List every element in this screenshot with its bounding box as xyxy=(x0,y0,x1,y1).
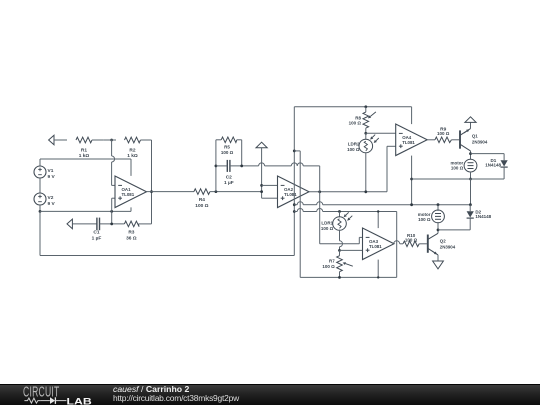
wire flag stub xyxy=(261,148,263,198)
svg-text:V1: V1 xyxy=(48,168,54,174)
wire xyxy=(72,223,97,225)
wire xyxy=(365,133,367,139)
node junction xyxy=(215,165,218,168)
node junction R8 top xyxy=(364,105,367,108)
svg-text:Q1: Q1 xyxy=(472,134,478,139)
wire xyxy=(339,230,341,241)
node junction LDR1 top xyxy=(338,210,341,213)
node junction xyxy=(293,210,296,213)
node flag OA2 plus xyxy=(256,142,267,148)
svg-text:1N4148: 1N4148 xyxy=(485,163,501,168)
wire OA3 V- pin xyxy=(377,260,379,278)
svg-text:9 V: 9 V xyxy=(48,174,56,180)
wire xyxy=(216,165,227,167)
wire feedback right vertical xyxy=(151,140,153,224)
op-amp OA3 xyxy=(363,228,395,259)
resistor R4 xyxy=(194,189,210,195)
voltage source V1 9V xyxy=(34,166,46,178)
wire OA4 V+ pin xyxy=(411,107,413,124)
wire row to OA3 minus xyxy=(320,243,360,245)
wire OA3 out xyxy=(394,241,400,244)
photoresistor LDR2 xyxy=(359,139,373,153)
wire row Vminus B xyxy=(294,211,297,213)
light arrows LDR2 xyxy=(372,135,375,138)
wire OA4 plus vertical xyxy=(386,146,388,192)
wire OA3 V+ pin xyxy=(377,212,379,229)
svg-text:1N4148: 1N4148 xyxy=(475,214,491,219)
wire feedback vertical xyxy=(319,166,321,192)
wire OA2out to OA3 row xyxy=(319,243,321,245)
light arrows LDR1 xyxy=(346,212,349,215)
svg-text:R4: R4 xyxy=(199,197,205,203)
node junction xyxy=(293,203,296,206)
svg-text:TL081: TL081 xyxy=(284,192,297,197)
diode D2 1N4148 xyxy=(469,205,471,212)
wire xyxy=(54,139,67,141)
svg-text:1 µF: 1 µF xyxy=(92,235,102,241)
node junction R7 bottom xyxy=(338,276,341,279)
op-amp OA2 xyxy=(278,176,310,208)
node junction xyxy=(469,178,472,181)
svg-text:1 µF: 1 µF xyxy=(224,180,234,186)
wire V+ pin OA1 xyxy=(130,159,132,176)
svg-text:R2: R2 xyxy=(129,147,135,153)
diode D1 1N4148 xyxy=(503,154,505,161)
svg-text:100 Ω: 100 Ω xyxy=(347,147,360,152)
resistor R9 xyxy=(435,137,451,143)
svg-text:100 Ω: 100 Ω xyxy=(418,217,431,222)
motor motor1 100ohm xyxy=(464,159,477,172)
capacitor C1 1uF xyxy=(96,218,98,231)
photoresistor LDR1 xyxy=(333,217,347,231)
wire xyxy=(437,205,439,211)
node junction xyxy=(293,150,296,153)
svg-text:100 Ω: 100 Ω xyxy=(221,150,234,155)
svg-text:100 Ω: 100 Ω xyxy=(322,264,335,269)
wire xyxy=(365,153,367,192)
svg-text:TL081: TL081 xyxy=(402,140,415,145)
op-amp OA1 xyxy=(115,176,147,208)
wire inverting input OA1 xyxy=(111,140,113,156)
wire non-inverting OA3 xyxy=(340,249,363,251)
wire V+ rail row xyxy=(40,158,131,160)
svg-text:100 Ω: 100 Ω xyxy=(451,166,464,171)
wire second vertical xyxy=(299,151,301,278)
transistor Q2 2N3904 xyxy=(427,235,429,253)
wire OA4 V- pin / vertical xyxy=(411,156,413,205)
node junction xyxy=(240,165,243,168)
svg-text:TL081: TL081 xyxy=(122,192,135,197)
wire motor2 bottom xyxy=(437,222,439,233)
resistor R1 xyxy=(76,137,92,143)
svg-text:C1: C1 xyxy=(93,230,99,236)
wire box bottom xyxy=(300,276,397,278)
wire row Vminus A xyxy=(294,204,297,206)
wire inverting input OA2 xyxy=(262,184,278,186)
wire corner from feedback vertical xyxy=(319,192,321,244)
wire xyxy=(451,139,459,141)
svg-text:36 Ω: 36 Ω xyxy=(126,235,137,241)
svg-text:1 kΩ: 1 kΩ xyxy=(79,153,90,159)
node junction xyxy=(260,190,263,193)
node junction C1/R3 xyxy=(110,223,113,226)
wire D1 bottom row xyxy=(412,178,505,180)
potentiometer R7 xyxy=(339,250,341,255)
wire to OA4 minus xyxy=(366,132,396,134)
svg-text:LDR1: LDR1 xyxy=(321,220,333,225)
ground xyxy=(433,261,444,269)
wire xyxy=(230,165,259,167)
node junction emitter/D1 xyxy=(469,152,472,155)
node junction xyxy=(110,210,113,213)
svg-text:1 kΩ: 1 kΩ xyxy=(127,153,138,159)
node junction xyxy=(410,178,413,181)
node junction xyxy=(410,203,413,206)
wire fb left vertical xyxy=(215,140,217,192)
svg-text:100 Ω: 100 Ω xyxy=(437,131,450,136)
svg-text:100 Ω: 100 Ω xyxy=(349,121,362,126)
wire xyxy=(210,191,262,193)
node junction V2 bottom xyxy=(39,210,42,213)
node flag Q1 collector xyxy=(465,117,476,123)
motor motor2 100ohm xyxy=(432,210,445,223)
transistor Q1 2N3904 xyxy=(459,130,461,148)
wire box right xyxy=(396,212,398,278)
potentiometer R8 xyxy=(365,107,367,112)
node junction xyxy=(260,184,263,187)
wire output OA2 xyxy=(309,191,387,193)
svg-text:C2: C2 xyxy=(226,174,232,180)
resistor R2 xyxy=(125,137,141,143)
wire xyxy=(141,139,152,141)
node output OA1 xyxy=(150,190,153,193)
svg-text:100 Ω: 100 Ω xyxy=(195,203,208,209)
wire D2 bottom row xyxy=(438,229,470,231)
wire xyxy=(138,223,151,225)
wire D1 top row xyxy=(471,153,505,155)
wire top rail xyxy=(294,106,411,108)
op-amp OA4 xyxy=(396,124,428,156)
node junction xyxy=(469,203,472,206)
node junction LDR2 bottom xyxy=(364,190,367,193)
node junction LDR1/R7 xyxy=(338,249,341,252)
svg-text:TL081: TL081 xyxy=(369,244,382,249)
svg-text:R7: R7 xyxy=(329,258,335,263)
wire OA4 output xyxy=(427,139,435,141)
svg-text:2N3904: 2N3904 xyxy=(440,245,456,250)
svg-text:2N3904: 2N3904 xyxy=(472,140,488,145)
wire non-inverting input OA2 xyxy=(262,197,278,199)
resistor R10 xyxy=(403,241,419,247)
wire xyxy=(100,223,125,225)
footer bar xyxy=(0,384,540,405)
wire emitter to ground xyxy=(437,255,439,261)
svg-text:R3: R3 xyxy=(128,230,134,236)
wire left power vertical xyxy=(293,107,295,256)
svg-text:LDR2: LDR2 xyxy=(348,142,360,147)
wire xyxy=(39,159,41,166)
wire left return vertical xyxy=(39,211,41,255)
svg-text:Q2: Q2 xyxy=(440,239,446,244)
wire motor1 bottom xyxy=(470,172,472,179)
wire V- rail row xyxy=(40,210,131,212)
wire xyxy=(39,178,41,193)
wire output OA1 xyxy=(147,191,195,193)
svg-text:100 Ω: 100 Ω xyxy=(405,238,418,243)
wire xyxy=(339,212,341,218)
wire non-inverting input OA1 xyxy=(112,197,115,199)
wire xyxy=(419,243,427,245)
node junction R8/LDR2 xyxy=(364,132,367,135)
wire collector up xyxy=(470,122,472,128)
capacitor C2 1uF xyxy=(226,160,228,172)
node junction xyxy=(110,139,113,142)
svg-text:9 V: 9 V xyxy=(48,201,56,207)
wire xyxy=(104,139,116,141)
voltage source V2 9V xyxy=(34,193,46,205)
node junction motor2 top xyxy=(437,203,440,206)
svg-text:V2: V2 xyxy=(48,195,54,201)
node flag IN1 xyxy=(49,135,54,145)
node junction xyxy=(437,229,440,232)
resistor R5 xyxy=(216,139,221,141)
node junction R4/fb xyxy=(215,190,218,193)
wire xyxy=(92,139,104,141)
wire emitter down xyxy=(470,151,472,159)
svg-text:100 Ω: 100 Ω xyxy=(321,226,334,231)
wire long bottom return xyxy=(40,255,294,257)
wire V- pin OA1 xyxy=(130,207,132,211)
resistor R3 36ohm xyxy=(124,221,139,227)
wire fb right vertical xyxy=(241,140,243,166)
node flag C1 xyxy=(67,219,72,229)
wire xyxy=(39,205,41,211)
wire stub xyxy=(294,150,300,152)
node junction feedback xyxy=(318,190,321,193)
wire down to row xyxy=(470,179,472,205)
svg-text:R1: R1 xyxy=(81,147,87,153)
